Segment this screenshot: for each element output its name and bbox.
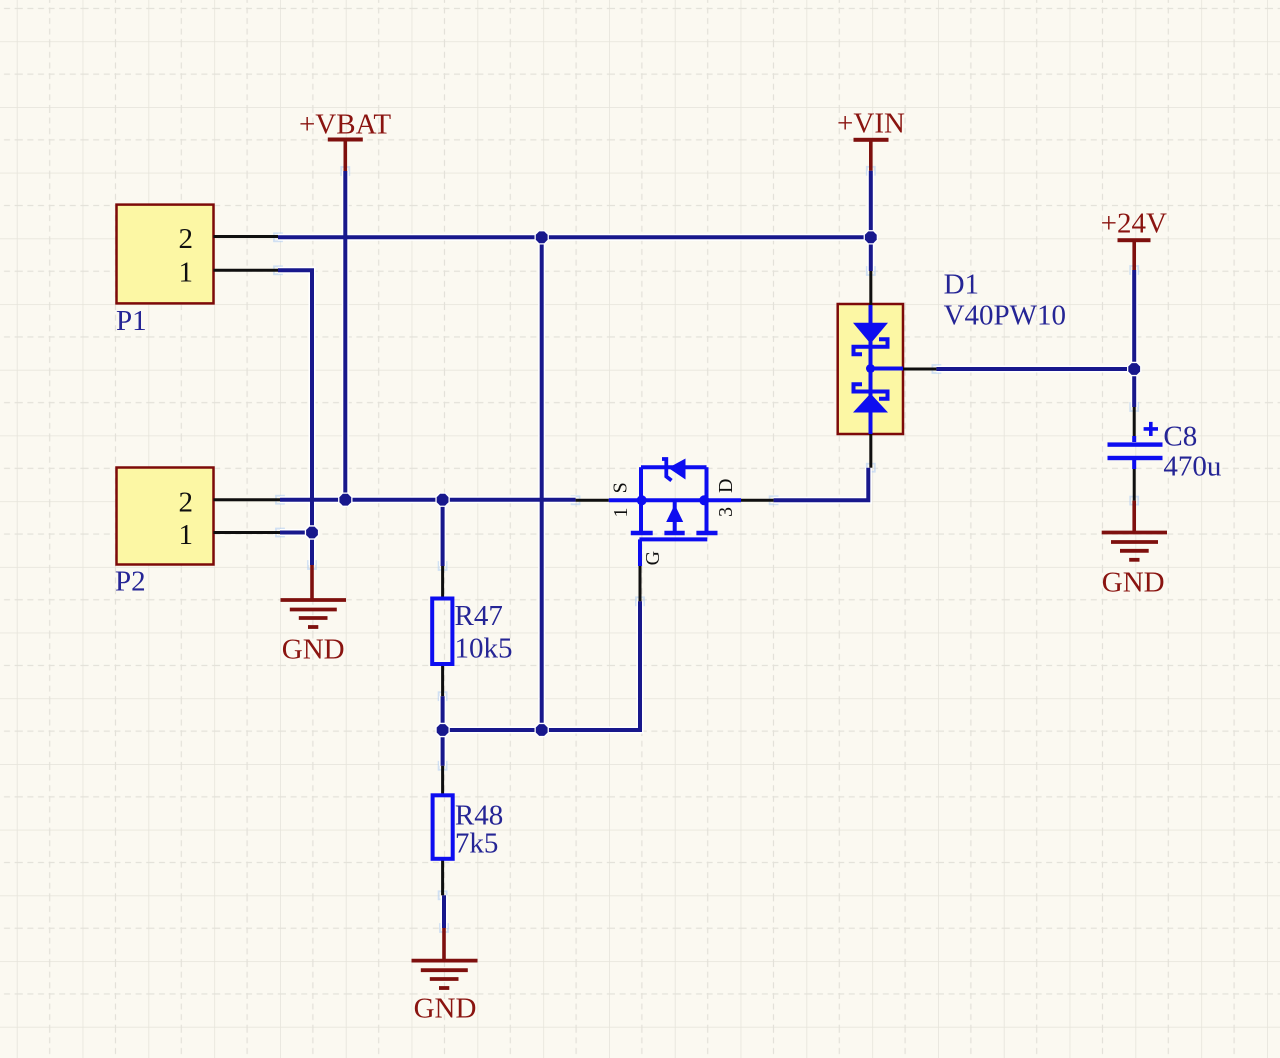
svg-text:1: 1 (179, 257, 194, 289)
svg-text:1: 1 (610, 508, 632, 518)
P1 pin 2 (179, 223, 279, 255)
Q1 pin number 1 (610, 508, 632, 518)
junction on top rail at gate-drive vertical (535, 230, 549, 244)
Q1 pin name D (715, 479, 737, 493)
wire P2.2 row to MOSFET source (280, 498, 576, 502)
ground below R48 (412, 928, 478, 1025)
junction P2.1 / GND (305, 525, 319, 539)
junction R47 at P2.2 row (435, 493, 449, 507)
svg-text:GND: GND (414, 993, 477, 1025)
resistor R48 (433, 766, 453, 896)
value 470u (1163, 451, 1221, 483)
power +VIN (837, 108, 905, 171)
wire gate row (443, 601, 640, 730)
wire P2.1 stub to junction (280, 531, 312, 535)
svg-text:2: 2 (179, 223, 194, 255)
connector P2 body (117, 468, 214, 565)
wire +VBAT stem (343, 171, 347, 500)
svg-text:+24V: +24V (1101, 208, 1167, 240)
svg-text:7k5: 7k5 (455, 828, 499, 860)
D1 pin 3 (right tap) (903, 368, 936, 371)
designator C8 (1163, 421, 1197, 453)
svg-text:GND: GND (1102, 567, 1165, 599)
svg-text:GND: GND (282, 634, 345, 666)
P2 pin 1 (179, 519, 281, 551)
TVS diode D1 body (838, 304, 903, 434)
D1 pin 2 (bottom) (869, 434, 872, 468)
value 10k5 (455, 633, 513, 665)
svg-text:D: D (715, 479, 737, 493)
Q1 pin name G (642, 551, 664, 565)
connector P1 body (117, 205, 214, 304)
junction gate-drive at gate row (535, 723, 549, 737)
junction +24V node (1127, 362, 1141, 376)
ground below P2 area (281, 565, 347, 666)
resistor R47 (432, 566, 452, 696)
svg-text:+VBAT: +VBAT (299, 109, 391, 141)
wire GND leg below R48 (442, 895, 446, 928)
capacitor C8 (1108, 407, 1163, 501)
wire R47 top leg (441, 500, 445, 566)
designator P1 (116, 305, 147, 337)
MOSFET Q1 (576, 459, 774, 602)
svg-text:D1: D1 (944, 269, 979, 301)
Q1 pin name S (610, 482, 632, 493)
wire D1 tap to +24V node (936, 367, 1134, 371)
power +VBAT (299, 109, 391, 172)
power +24V (1101, 208, 1167, 270)
Q1 pin number 3 (715, 507, 737, 517)
designator R47 (455, 600, 503, 632)
svg-text:C8: C8 (1163, 421, 1197, 453)
wire R48 top leg (441, 730, 445, 766)
wire +24V stem (1132, 270, 1136, 407)
svg-text:10k5: 10k5 (455, 633, 513, 665)
svg-text:R47: R47 (455, 600, 503, 632)
svg-text:P2: P2 (115, 566, 146, 598)
svg-text:470u: 470u (1163, 451, 1221, 483)
designator D1 (944, 269, 979, 301)
svg-text:P1: P1 (116, 305, 147, 337)
P2 pin 2 (179, 486, 281, 518)
D1 pin 1 (top) (869, 271, 872, 305)
svg-text:1: 1 (179, 519, 194, 551)
wire P1.1 down to P2.1 (278, 270, 312, 532)
value 7k5 (455, 828, 499, 860)
svg-text:+VIN: +VIN (837, 108, 905, 140)
wire GND leg below P2.1 junction (310, 533, 314, 566)
junction on top rail at +VIN (864, 230, 878, 244)
D1 internal symbol (853, 305, 903, 434)
svg-text:3: 3 (715, 507, 737, 517)
designator R48 (455, 800, 503, 832)
value V40PW10 (944, 300, 1066, 332)
ground below C8 (1102, 501, 1167, 599)
P1 pin 1 (179, 257, 279, 289)
wire R47 bottom leg (441, 696, 445, 730)
svg-text:G: G (642, 551, 664, 565)
wire net P1.2 / +VIN top rail (278, 235, 871, 239)
junction R47/R48 gate node (435, 723, 449, 737)
junction +VBAT at P2.2 row (338, 493, 352, 507)
designator P2 (115, 566, 146, 598)
svg-text:2: 2 (179, 486, 194, 518)
svg-text:S: S (610, 482, 632, 493)
wire D1 bottom to MOSFET drain (774, 468, 869, 501)
wire +VIN stem to D1 (869, 171, 873, 271)
wire gate-drive vertical (540, 237, 544, 730)
svg-text:V40PW10: V40PW10 (944, 300, 1066, 332)
